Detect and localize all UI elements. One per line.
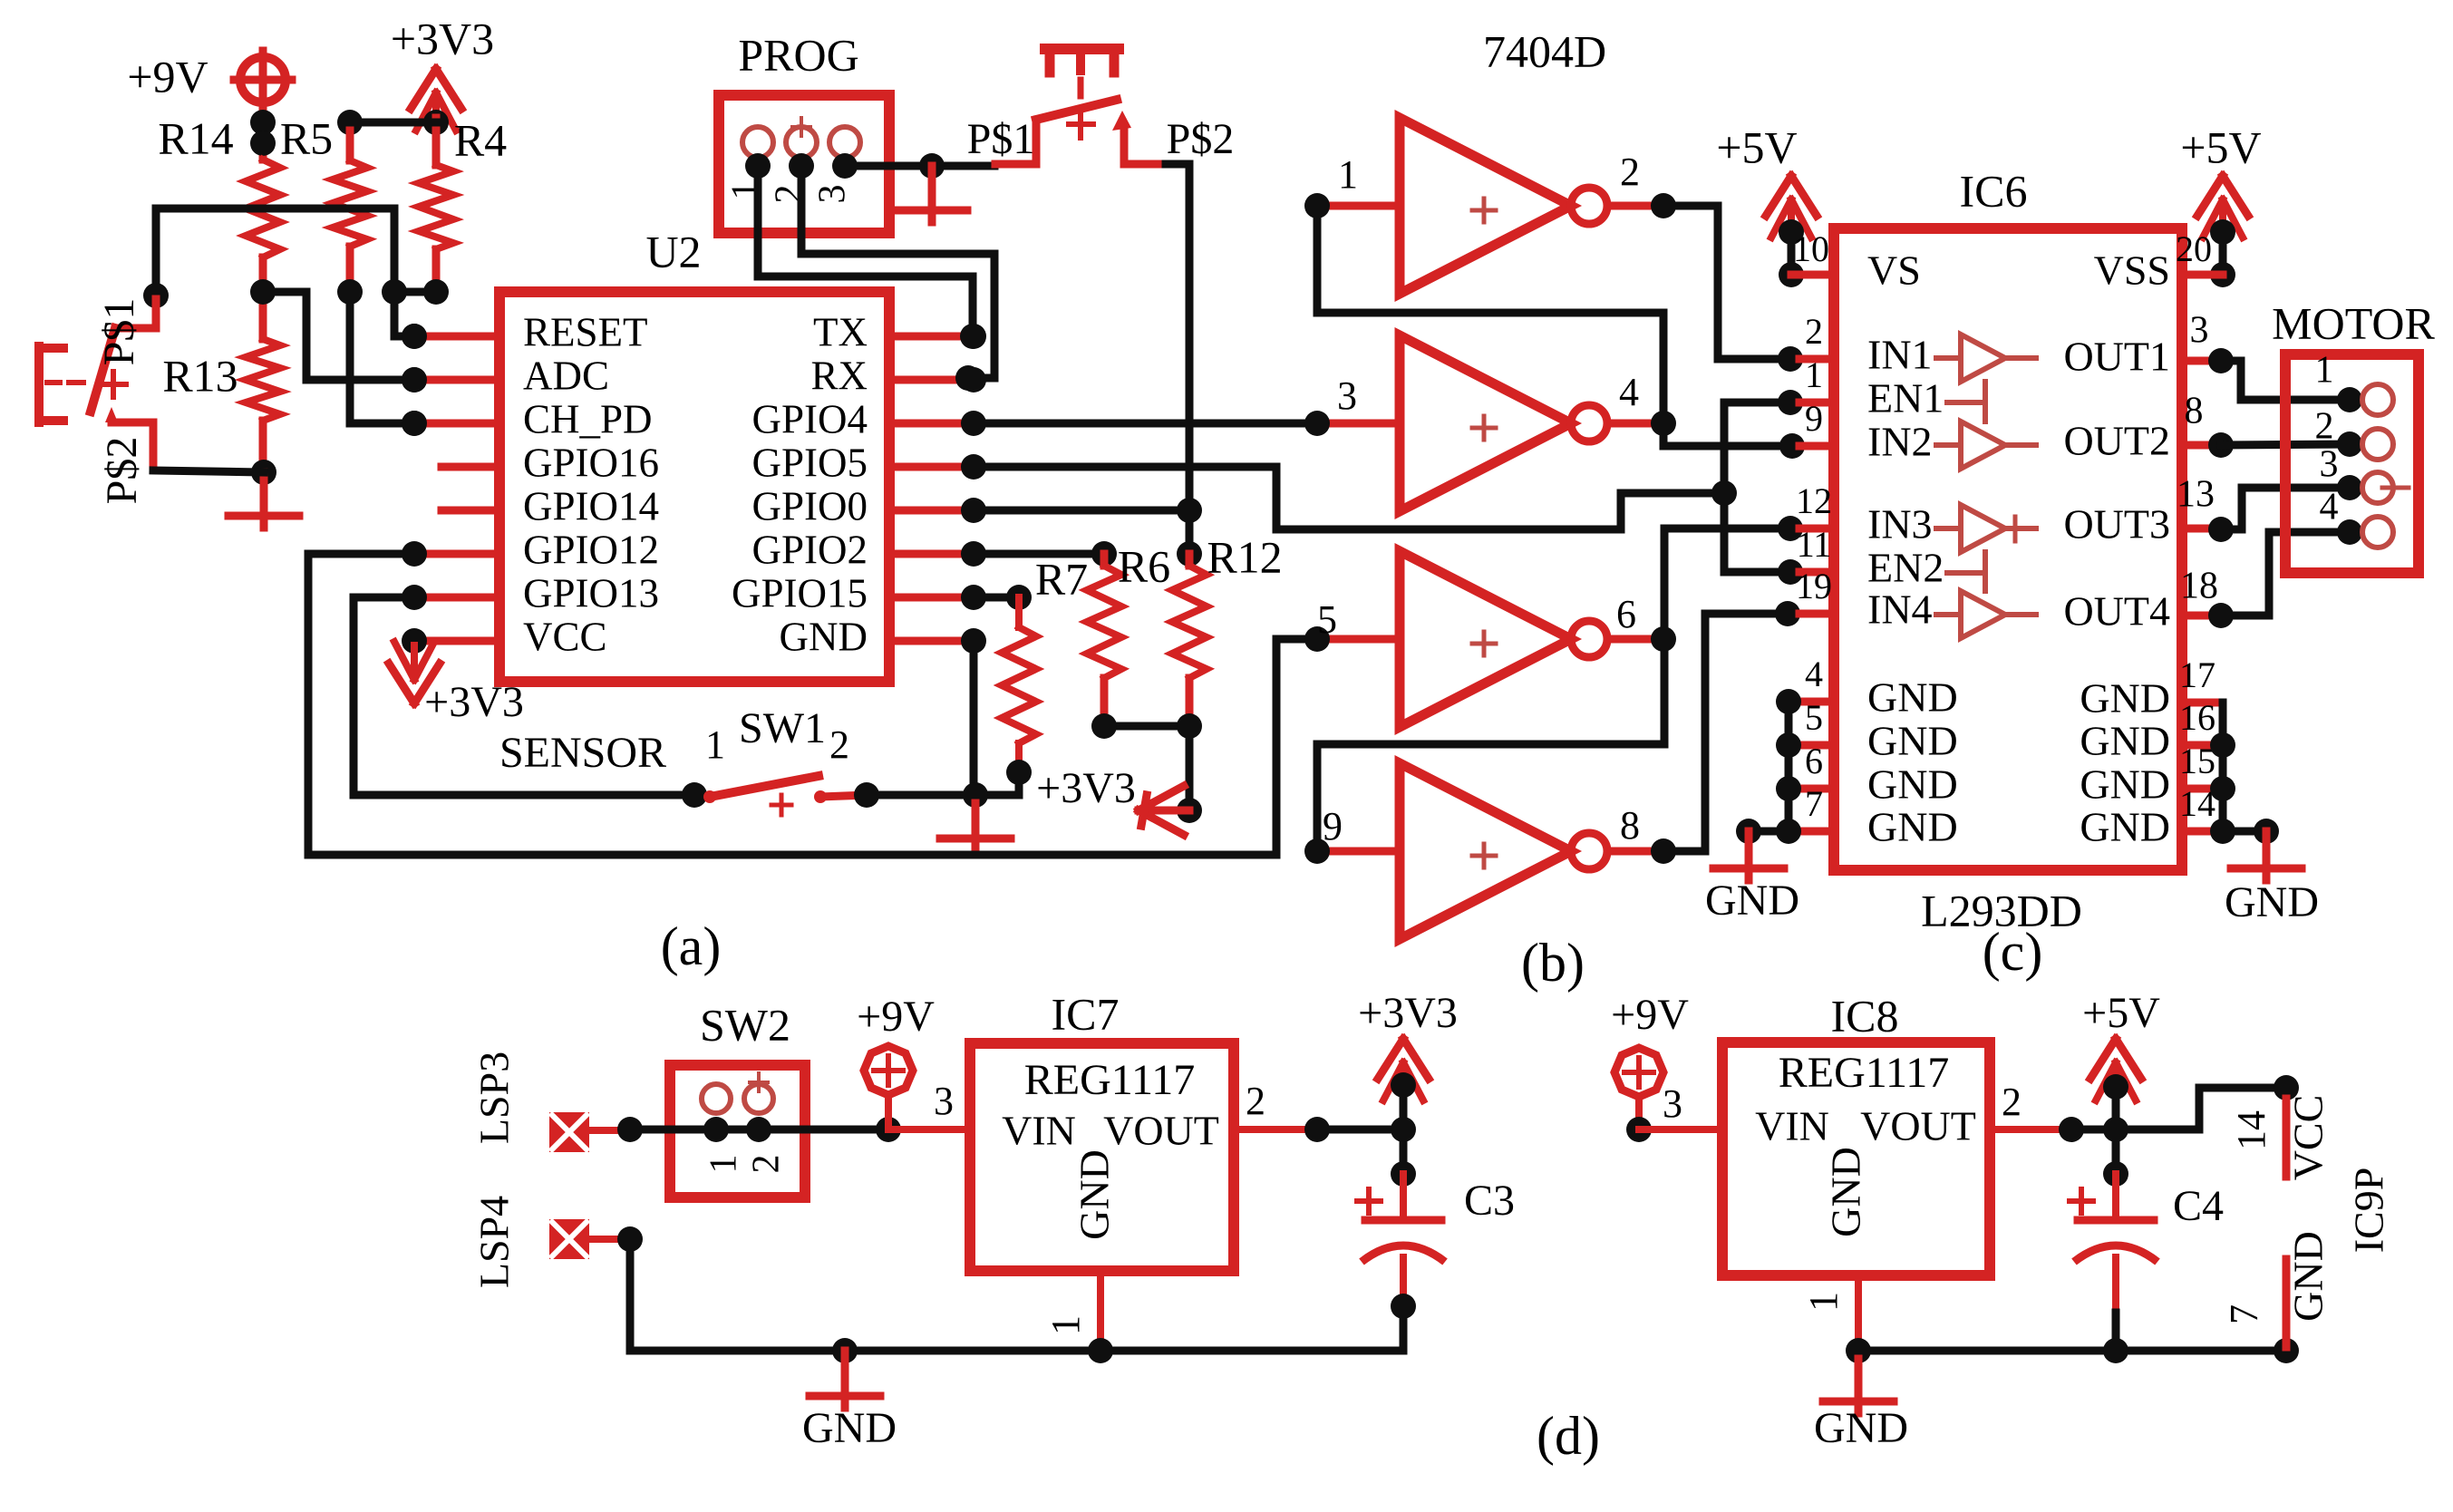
svg-text:GND: GND xyxy=(2080,804,2170,850)
wire R14 node to ADC xyxy=(263,292,427,393)
IC U2 (ESP8266 module) xyxy=(499,226,889,682)
wire R5 bottom to CH_PD xyxy=(350,292,427,436)
svg-text:GPIO4: GPIO4 xyxy=(751,396,868,441)
svg-text:+9V: +9V xyxy=(1611,991,1689,1039)
wire GPIO4 to 7404 pin3 xyxy=(974,420,1316,428)
svg-text:6: 6 xyxy=(1616,592,1636,636)
IC6 pin 14 (GND right) xyxy=(2179,783,2216,831)
resistor R5 xyxy=(280,110,367,305)
svg-text:REG1117: REG1117 xyxy=(1024,1056,1195,1104)
IC6 buffer symbols xyxy=(1936,334,2036,638)
svg-text:(c): (c) xyxy=(1983,922,2043,982)
svg-text:GND: GND xyxy=(2080,718,2170,764)
svg-text:IC9P: IC9P xyxy=(2346,1168,2392,1254)
U2 pin RESET (left) xyxy=(402,309,648,354)
svg-text:IN3: IN3 xyxy=(1867,501,1933,548)
svg-text:IC7: IC7 xyxy=(1052,988,1120,1039)
capacitor C4 xyxy=(2070,1174,2224,1313)
svg-text:10: 10 xyxy=(1793,228,1829,269)
svg-text:7: 7 xyxy=(1805,783,1823,824)
wire R14 bottom node xyxy=(250,257,276,339)
supply +3V3 (section d) xyxy=(1358,989,1458,1187)
pushbutton P$1/P$2 (prog switch) xyxy=(967,49,1235,164)
supply +3V3 (left arrow) below R12 xyxy=(1036,726,1202,835)
svg-text:OUT4: OUT4 xyxy=(2063,588,2170,635)
svg-text:VOUT: VOUT xyxy=(1860,1103,1976,1149)
svg-text:8: 8 xyxy=(2185,391,2204,432)
svg-text:5: 5 xyxy=(1805,697,1823,738)
wire P$2 to R13 bottom xyxy=(153,470,264,472)
svg-text:3: 3 xyxy=(2190,310,2209,352)
svg-text:R13: R13 xyxy=(162,350,238,401)
ground at SW1 node xyxy=(940,782,1011,850)
U2 pin GPIO16 (left) xyxy=(441,440,659,485)
wire R7 bottom to gnd node xyxy=(975,772,1019,795)
IC6 pin 15 (GND right) xyxy=(2179,741,2216,789)
svg-text:3: 3 xyxy=(812,185,854,204)
wire bottom rail (section d right) xyxy=(1858,1313,2299,1363)
svg-text:OUT1: OUT1 xyxy=(2063,334,2170,380)
svg-text:19: 19 xyxy=(1796,566,1832,606)
switch S1 (reset button) P$1/P$2 xyxy=(39,298,156,505)
U2 pin GPIO14 (left) xyxy=(441,483,659,528)
svg-text:OUT3: OUT3 xyxy=(2063,501,2170,548)
svg-text:C3: C3 xyxy=(1464,1177,1515,1225)
svg-text:1: 1 xyxy=(1801,1292,1846,1312)
wire TX node xyxy=(960,324,985,349)
svg-text:GND: GND xyxy=(2080,761,2170,808)
wire LSP3 to VIN of IC7 xyxy=(617,1117,901,1142)
U2 pin GPIO2 (right) xyxy=(751,527,986,572)
svg-text:+5V: +5V xyxy=(1716,121,1797,172)
svg-text:4: 4 xyxy=(1619,370,1639,414)
wire PROG pin3 to P$1 xyxy=(845,153,994,179)
svg-text:7404D: 7404D xyxy=(1483,25,1606,76)
svg-text:GPIO14: GPIO14 xyxy=(523,483,659,528)
svg-text:LSP4: LSP4 xyxy=(471,1196,518,1288)
inverter gate A (7404 1-2) xyxy=(1304,118,1676,294)
supply +5V (section d) xyxy=(2082,989,2160,1187)
svg-text:9: 9 xyxy=(1323,804,1343,848)
IC6 pin 17 (GND right) xyxy=(2179,654,2216,703)
supply +5V (left of IC6) xyxy=(1716,121,1834,287)
svg-text:14: 14 xyxy=(2179,783,2215,824)
svg-text:2: 2 xyxy=(1620,150,1640,194)
inverter gate B (7404 3-4) xyxy=(1304,335,1676,511)
wire IC6 left GND bus xyxy=(1736,702,1789,844)
svg-text:R4: R4 xyxy=(454,114,507,165)
U2 pin TX (right) xyxy=(813,309,986,354)
svg-text:VIN: VIN xyxy=(1755,1103,1829,1149)
svg-text:GPIO15: GPIO15 xyxy=(732,570,868,615)
U2 pin ADC (left) xyxy=(402,353,609,398)
svg-text:1: 1 xyxy=(705,722,725,767)
wire PROG pin2 to RX xyxy=(801,166,994,391)
U2 pin GPIO0 (right) xyxy=(751,483,986,528)
IC8 VOUT pin 2 xyxy=(1990,1080,2084,1142)
ground (section d right) xyxy=(1814,1351,1908,1452)
IC9P GND pin 7 xyxy=(2222,1231,2331,1347)
supply +3V3 below VCC xyxy=(389,642,524,726)
U2 pin GPIO5 (right) xyxy=(751,440,986,485)
inverter gate D (7404 9-8) xyxy=(1304,763,1676,939)
svg-text:+3V3: +3V3 xyxy=(391,13,494,63)
svg-text:+3V3: +3V3 xyxy=(1358,989,1458,1037)
IC7 VOUT pin 2 xyxy=(1234,1079,1330,1142)
IC IC7 REG1117 xyxy=(970,988,1234,1271)
IC IC8 REG1117 xyxy=(1722,990,1990,1275)
U2 pin RX (right) xyxy=(810,353,986,398)
svg-text:GPIO13: GPIO13 xyxy=(523,570,659,615)
wire bottom rail (section d left) xyxy=(617,1226,1403,1363)
svg-text:(d): (d) xyxy=(1537,1406,1600,1466)
svg-text:IC8: IC8 xyxy=(1831,990,1899,1041)
svg-text:IN4: IN4 xyxy=(1867,586,1933,633)
svg-text:ADC: ADC xyxy=(523,353,609,398)
svg-text:GND: GND xyxy=(2285,1231,2332,1322)
wire IC6 right GND bus xyxy=(2210,703,2279,844)
svg-text:4: 4 xyxy=(2320,487,2339,528)
wire gate D out to IN4 xyxy=(1663,601,1800,851)
svg-text:GND: GND xyxy=(1071,1149,1118,1240)
resistor R4 xyxy=(419,110,507,305)
svg-text:3: 3 xyxy=(1663,1081,1682,1126)
svg-text:3: 3 xyxy=(1337,373,1357,418)
wire gate C out to gate D in xyxy=(1317,639,1664,851)
svg-text:GND: GND xyxy=(1705,877,1799,925)
IC6 pin 19 stub xyxy=(1796,566,1834,614)
pad LSP4 xyxy=(471,1196,630,1288)
svg-text:CH_PD: CH_PD xyxy=(523,396,653,441)
svg-text:+5V: +5V xyxy=(2082,989,2160,1037)
wire +5V node to IC9P VCC xyxy=(2116,1075,2299,1129)
svg-text:GND: GND xyxy=(1867,761,1958,808)
svg-text:TX: TX xyxy=(813,309,868,354)
svg-text:EN2: EN2 xyxy=(1867,545,1944,591)
svg-text:7: 7 xyxy=(2222,1304,2266,1324)
wire gate C out to IN3 xyxy=(1664,516,1803,639)
wire VOUT to +5V/C4 xyxy=(2071,1126,2116,1134)
header PROG xyxy=(719,29,889,233)
svg-text:14: 14 xyxy=(2229,1110,2274,1150)
wire GPIO13 to SENSOR/SW1 xyxy=(354,597,707,808)
svg-text:R6: R6 xyxy=(1118,540,1170,591)
ground below PROG xyxy=(897,166,967,222)
svg-text:2: 2 xyxy=(2002,1080,2022,1124)
wire GPIO0 to P$2/R12 xyxy=(974,507,1189,515)
svg-text:20: 20 xyxy=(2176,228,2212,269)
IC6 pin 1 stub xyxy=(1799,354,1834,402)
svg-text:GND: GND xyxy=(1823,1147,1869,1237)
svg-text:P$1: P$1 xyxy=(967,115,1035,163)
ground (section d left) xyxy=(802,1351,897,1452)
ground right of IC6 xyxy=(2225,831,2319,926)
svg-text:GND: GND xyxy=(1867,804,1958,850)
wire GPIO5 to EN1/EN2 xyxy=(974,467,1724,529)
svg-text:VOUT: VOUT xyxy=(1103,1108,1219,1154)
svg-text:GND: GND xyxy=(802,1404,897,1452)
wire R6/R12 bottoms xyxy=(1091,713,1202,739)
svg-text:GPIO2: GPIO2 xyxy=(751,527,868,572)
svg-text:17: 17 xyxy=(2179,654,2215,695)
svg-text:C4: C4 xyxy=(2173,1182,2224,1230)
wire VOUT to +3V3/C3 xyxy=(1317,1126,1403,1134)
svg-text:GPIO0: GPIO0 xyxy=(751,483,868,528)
U2 pin VCC (left) xyxy=(402,614,607,659)
svg-text:VS: VS xyxy=(1867,247,1921,294)
svg-text:(b): (b) xyxy=(1521,933,1585,993)
svg-text:5: 5 xyxy=(1317,597,1337,642)
resistor R7 xyxy=(974,553,1088,785)
svg-text:R12: R12 xyxy=(1207,531,1282,582)
svg-text:P$2: P$2 xyxy=(98,437,146,505)
capacitor C3 xyxy=(1357,1174,1515,1319)
IC6 pin 3 OUT1 wire to motor 1 xyxy=(2182,310,2362,412)
supply +3V3 arrow (top) xyxy=(391,13,494,131)
svg-text:MOTOR: MOTOR xyxy=(2272,297,2435,348)
ground below R13 xyxy=(228,421,299,528)
svg-text:RESET: RESET xyxy=(523,309,648,354)
IC IC6 L293DD box xyxy=(1834,165,2182,935)
svg-text:+9V: +9V xyxy=(857,993,935,1041)
IC8 GND pin 1 xyxy=(1801,1275,1871,1363)
svg-text:P$1: P$1 xyxy=(95,298,143,366)
svg-text:GPIO16: GPIO16 xyxy=(523,440,659,485)
svg-text:R7: R7 xyxy=(1035,553,1088,604)
svg-text:12: 12 xyxy=(1796,480,1832,521)
svg-text:P$2: P$2 xyxy=(1167,115,1235,163)
IC6 pin 4 (GND) xyxy=(1776,654,1834,714)
U2 pin GPIO4 (right) xyxy=(751,396,986,441)
wire P$1 node to RESET / R4 bottom xyxy=(143,208,436,349)
wire gate B out to gate A in xyxy=(1317,206,1663,423)
U2 pin GPIO15 (right) xyxy=(732,570,986,615)
svg-text:GND: GND xyxy=(1867,718,1958,764)
resistor R14 xyxy=(158,112,280,257)
svg-text:3: 3 xyxy=(2320,444,2339,486)
wire GPIO2 to R6 xyxy=(974,550,1104,558)
U2 pin GPIO13 (left) xyxy=(402,570,659,615)
IC7 GND pin 1 xyxy=(1043,1271,1113,1363)
svg-text:3: 3 xyxy=(934,1079,954,1123)
svg-text:2: 2 xyxy=(1246,1079,1265,1123)
svg-text:VIN: VIN xyxy=(1002,1108,1076,1154)
svg-text:+9V: +9V xyxy=(127,51,208,102)
svg-text:GND: GND xyxy=(2225,878,2319,926)
wire P$2 vertical to GPIO0 node xyxy=(1166,164,1202,554)
wire R5 top to R4 top xyxy=(350,119,436,127)
supply +5V (VSS) xyxy=(2176,121,2262,287)
svg-text:PROG: PROG xyxy=(738,29,858,80)
svg-text:R5: R5 xyxy=(280,112,333,163)
svg-text:REG1117: REG1117 xyxy=(1779,1049,1949,1097)
IC6 pin 5 (GND) xyxy=(1776,697,1834,758)
svg-text:16: 16 xyxy=(2179,697,2215,738)
svg-text:IN1: IN1 xyxy=(1867,332,1933,378)
wire to IC7 VIN xyxy=(888,1079,970,1129)
switch SW2 xyxy=(670,999,805,1197)
wire U2 GND down xyxy=(970,641,978,795)
IC6 pin 16 (GND right) xyxy=(2179,697,2216,745)
svg-text:GND: GND xyxy=(2080,675,2170,722)
svg-text:1: 1 xyxy=(703,1155,745,1174)
svg-text:EN1: EN1 xyxy=(1867,375,1944,422)
supply +9V (section d right) xyxy=(1611,991,1689,1142)
svg-text:VCC: VCC xyxy=(523,614,607,659)
svg-text:1: 1 xyxy=(2315,350,2334,392)
IC6 pin 8 OUT2 wire to motor 2 xyxy=(2182,391,2362,458)
svg-text:GND: GND xyxy=(780,614,868,659)
svg-text:6: 6 xyxy=(1805,741,1823,781)
svg-text:LSP3: LSP3 xyxy=(471,1052,518,1144)
svg-text:SW2: SW2 xyxy=(700,999,790,1050)
svg-text:U2: U2 xyxy=(645,226,701,276)
svg-text:1: 1 xyxy=(1338,152,1358,197)
resistor R13 xyxy=(162,339,280,421)
U2 pin GPIO12 (left) xyxy=(402,527,659,572)
svg-text:9: 9 xyxy=(1805,398,1823,439)
wire GPIO12 to 7404 pin5 xyxy=(308,554,1314,855)
connector MOTOR xyxy=(2272,297,2435,573)
inverter gate C (7404 5-6) xyxy=(1304,551,1676,727)
svg-text:IC6: IC6 xyxy=(1960,165,2028,216)
svg-text:RX: RX xyxy=(810,353,868,398)
svg-text:2: 2 xyxy=(1805,311,1823,352)
svg-text:2: 2 xyxy=(829,722,849,767)
resistor R12 xyxy=(1172,531,1283,726)
supply +9V (section d left) xyxy=(857,993,935,1129)
svg-text:+3V3: +3V3 xyxy=(1036,764,1136,812)
svg-text:(a): (a) xyxy=(661,916,722,976)
wire gate B out to IN2 xyxy=(1663,423,1805,459)
supply +9V P1 xyxy=(127,51,292,160)
IC6 pin 9 stub xyxy=(1799,398,1834,446)
ground left of IC6 xyxy=(1705,831,1799,925)
wire PROG pin1 to TX xyxy=(758,166,973,336)
IC6 pin 12 stub xyxy=(1796,480,1834,528)
svg-text:1: 1 xyxy=(1043,1315,1088,1335)
svg-text:VSS: VSS xyxy=(2094,247,2170,294)
svg-text:11: 11 xyxy=(1797,524,1832,565)
svg-text:4: 4 xyxy=(1805,654,1823,694)
svg-text:R14: R14 xyxy=(158,112,233,163)
svg-text:2: 2 xyxy=(746,1155,788,1174)
svg-text:GPIO12: GPIO12 xyxy=(523,527,659,572)
wire gate A out to IN1 xyxy=(1663,206,1803,372)
svg-text:GND: GND xyxy=(1867,674,1958,721)
svg-text:SW1: SW1 xyxy=(739,704,826,752)
svg-text:8: 8 xyxy=(1620,803,1640,848)
resistor R6 xyxy=(1087,540,1170,726)
svg-text:GND: GND xyxy=(1814,1404,1908,1452)
svg-text:15: 15 xyxy=(2179,741,2215,781)
svg-text:1: 1 xyxy=(1805,354,1823,395)
svg-text:+3V3: +3V3 xyxy=(424,678,524,726)
svg-text:SENSOR: SENSOR xyxy=(499,729,666,777)
wire to IC8 VIN xyxy=(1639,1081,1722,1129)
svg-text:VCC: VCC xyxy=(2285,1095,2332,1181)
svg-text:13: 13 xyxy=(2177,474,2215,516)
IC6 pin 18 OUT4 wire to motor 4 xyxy=(2180,519,2362,628)
U2 pin GND (right) xyxy=(780,614,987,659)
svg-text:OUT2: OUT2 xyxy=(2063,418,2170,464)
IC6 pin 13 OUT3 wire to motor 3 xyxy=(2177,474,2362,542)
svg-text:+5V: +5V xyxy=(2180,121,2261,172)
switch SW1 xyxy=(703,704,879,815)
pad LSP3 xyxy=(471,1052,630,1152)
IC9P VCC pin 14 xyxy=(2229,1095,2331,1181)
IC6 pin 6 (GND) xyxy=(1776,741,1834,801)
wire SW1 to gnd node xyxy=(867,791,975,800)
wire EN1-EN2 xyxy=(1711,390,1803,585)
svg-text:18: 18 xyxy=(2180,566,2218,607)
IC6 pin 7 (GND) xyxy=(1776,783,1834,844)
svg-text:IN2: IN2 xyxy=(1867,419,1933,465)
U2 pin CH_PD (left) xyxy=(402,396,653,441)
svg-text:2: 2 xyxy=(2315,406,2334,448)
IC6 pin 2 stub xyxy=(1799,311,1834,359)
svg-text:GPIO5: GPIO5 xyxy=(751,440,868,485)
IC6 pin 11 stub xyxy=(1797,524,1834,572)
